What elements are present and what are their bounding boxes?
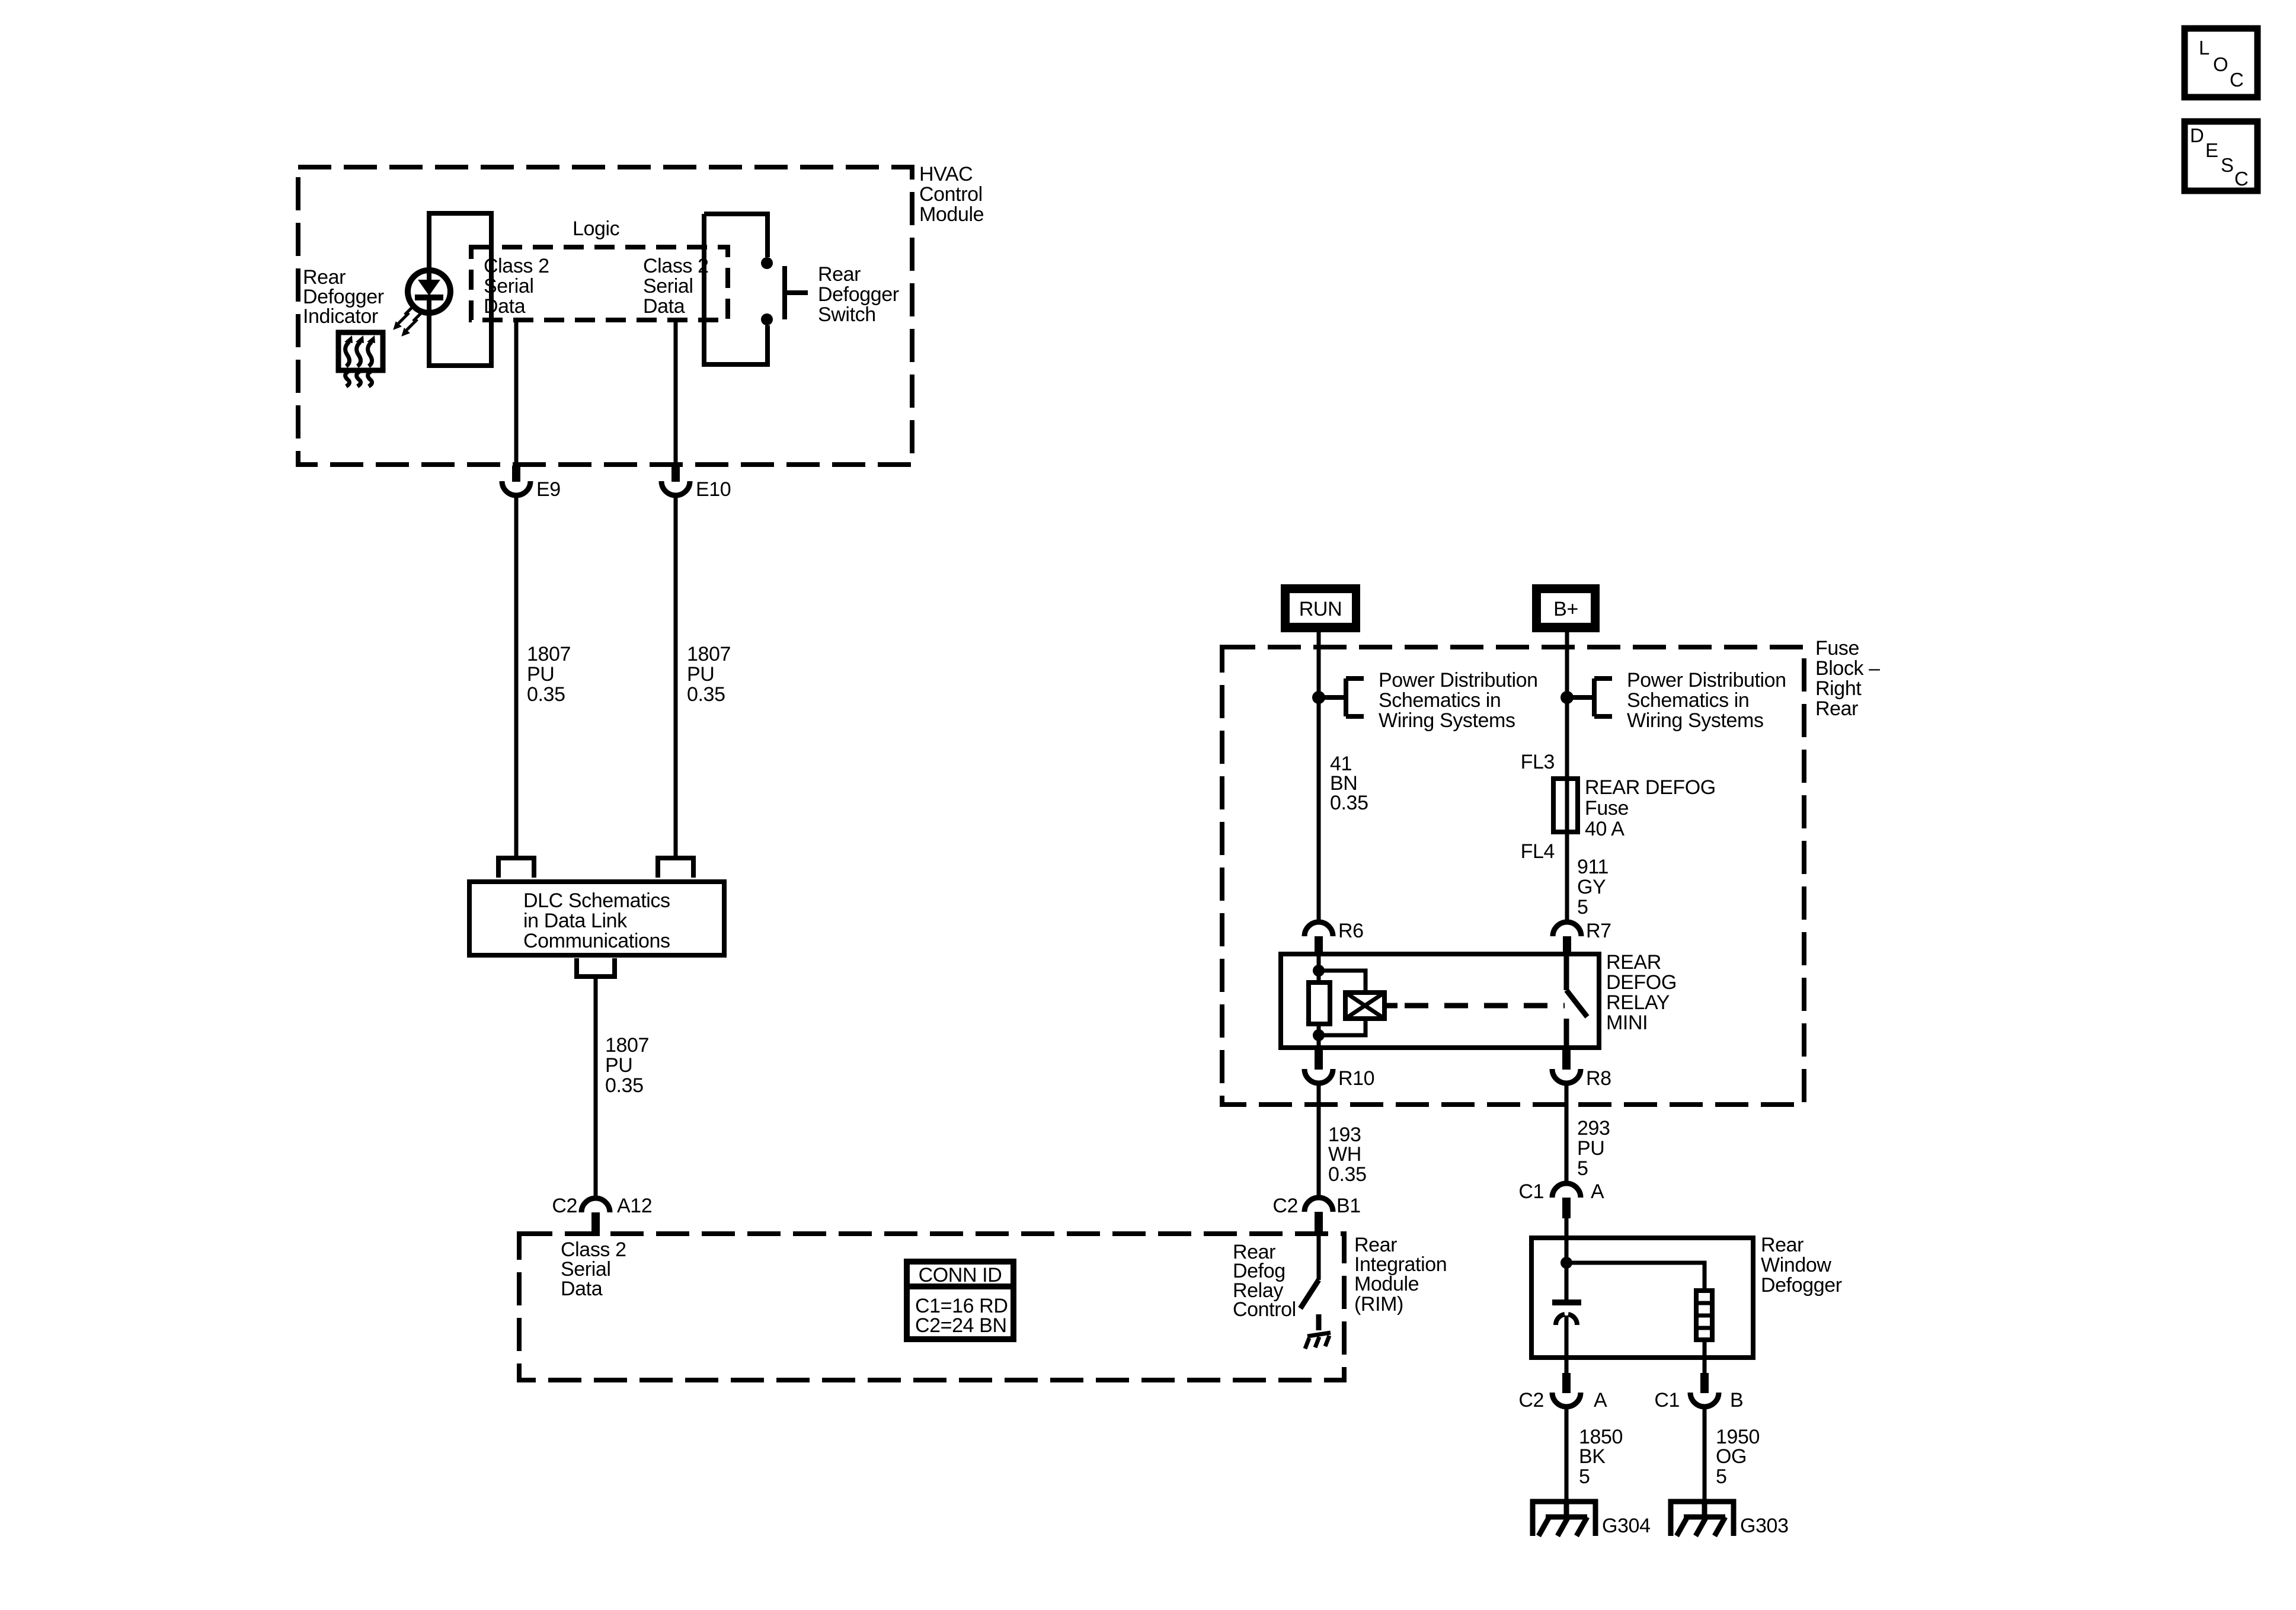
- defogger grid branch wire: [1566, 1263, 1705, 1291]
- wire label 41 BN 0.35: [1330, 753, 1368, 814]
- svg-text:C2=24 BN: C2=24 BN: [915, 1314, 1007, 1337]
- connector C2 A (ground side): [1552, 1373, 1581, 1407]
- svg-text:R7: R7: [1586, 920, 1611, 942]
- svg-text:911: 911: [1577, 856, 1609, 878]
- svg-text:GY: GY: [1577, 876, 1606, 898]
- svg-text:Fuse: Fuse: [1585, 797, 1629, 820]
- wire label 1807 PU 0.35 (right): [687, 643, 731, 706]
- junction upper (relay): [1313, 965, 1325, 977]
- svg-text:5: 5: [1577, 1157, 1588, 1180]
- rear defogger indicator branch rectangle (wire loop): [429, 213, 491, 366]
- relay coil element: [1345, 993, 1384, 1019]
- DLC connector bracket (right): [658, 858, 693, 878]
- svg-text:PU: PU: [527, 663, 554, 686]
- svg-text:Data: Data: [643, 295, 685, 318]
- DLC connector bracket (left): [498, 858, 534, 878]
- wire from logic to E10: [674, 320, 678, 466]
- REAR DEFOG Fuse 40 A label: [1585, 776, 1716, 840]
- junction on B+ wire: [1560, 691, 1574, 704]
- svg-text:REAR DEFOG: REAR DEFOG: [1585, 776, 1716, 799]
- REAR DEFOG RELAY MINI label: [1606, 951, 1677, 1034]
- svg-text:WH: WH: [1328, 1143, 1361, 1166]
- svg-text:1807: 1807: [687, 643, 731, 665]
- Class 2 Serial Data label (left): [484, 255, 549, 318]
- node B+: [1532, 584, 1600, 632]
- relay coil branch wire: [1319, 971, 1366, 1035]
- svg-text:Power Distribution: Power Distribution: [1627, 669, 1786, 692]
- chassis ground (RIM): [1305, 1333, 1331, 1349]
- svg-text:CONN ID: CONN ID: [919, 1264, 1002, 1286]
- svg-text:5: 5: [1579, 1465, 1590, 1488]
- Power Distribution Schematics in Wiring Systems label (B+): [1627, 669, 1786, 732]
- svg-text:OG: OG: [1716, 1445, 1747, 1468]
- svg-text:C: C: [2230, 69, 2244, 91]
- svg-text:L: L: [2199, 37, 2209, 59]
- REAR DEFOG RELAY MINI box: [1281, 954, 1599, 1048]
- Rear Defogger Indicator label: [303, 266, 384, 328]
- connector C1 B: [1690, 1373, 1719, 1407]
- svg-text:B+: B+: [1553, 598, 1578, 620]
- svg-text:E: E: [2205, 139, 2218, 161]
- svg-text:C1: C1: [1654, 1389, 1680, 1411]
- svg-text:DLC Schematics: DLC Schematics: [523, 889, 670, 912]
- svg-text:Block –: Block –: [1815, 657, 1880, 680]
- wire to G303: [1703, 1407, 1707, 1502]
- LOC reference box: [2185, 28, 2257, 97]
- svg-text:Control: Control: [919, 183, 983, 206]
- wire label 1950 OG 5: [1716, 1426, 1760, 1488]
- svg-text:40 A: 40 A: [1585, 818, 1625, 840]
- power distribution reference bracket (B+): [1567, 678, 1612, 716]
- RIM switch blade: [1300, 1280, 1319, 1308]
- svg-text:Class 2: Class 2: [484, 255, 549, 277]
- svg-text:Schematics in: Schematics in: [1627, 689, 1749, 712]
- Class 2 Serial Data label (RIM): [561, 1238, 626, 1300]
- svg-text:Switch: Switch: [818, 303, 876, 326]
- connector E9: [502, 466, 530, 495]
- Rear Defog Relay Control label: [1233, 1241, 1296, 1321]
- svg-text:5: 5: [1577, 896, 1588, 918]
- svg-text:DEFOG: DEFOG: [1606, 971, 1677, 994]
- relay resistor: [1309, 982, 1330, 1024]
- Rear Window Defogger label: [1761, 1234, 1842, 1297]
- svg-text:Window: Window: [1761, 1254, 1831, 1276]
- svg-text:A: A: [1591, 1180, 1604, 1203]
- svg-text:0.35: 0.35: [605, 1074, 644, 1097]
- Rear Window Defogger box: [1531, 1238, 1753, 1358]
- relay switch contact wire: [1564, 1019, 1569, 1048]
- connector R8: [1552, 1048, 1581, 1083]
- svg-text:0.35: 0.35: [687, 683, 725, 706]
- svg-text:FL3: FL3: [1521, 751, 1555, 773]
- svg-text:Serial: Serial: [643, 275, 693, 297]
- svg-text:Wiring Systems: Wiring Systems: [1627, 709, 1764, 732]
- svg-text:PU: PU: [605, 1054, 632, 1077]
- ground G303: [1671, 1502, 1734, 1536]
- svg-text:Defogger: Defogger: [818, 283, 899, 306]
- svg-text:A12: A12: [617, 1195, 652, 1217]
- svg-text:Power Distribution: Power Distribution: [1379, 669, 1538, 692]
- junction (defogger): [1560, 1257, 1572, 1269]
- wire label 1807 PU 0.35 (left): [527, 643, 571, 706]
- svg-text:C2: C2: [1272, 1195, 1298, 1217]
- svg-text:C2: C2: [552, 1195, 577, 1217]
- svg-text:R6: R6: [1338, 920, 1364, 942]
- wire fuse to R7: [1565, 832, 1569, 922]
- defogger grid element: [1696, 1291, 1712, 1340]
- svg-text:0.35: 0.35: [527, 683, 565, 706]
- Power Distribution Schematics in Wiring Systems label (RUN): [1379, 669, 1538, 732]
- svg-text:G303: G303: [1740, 1515, 1789, 1537]
- Fuse Block Right Rear dashed box: [1222, 647, 1804, 1105]
- svg-text:293: 293: [1577, 1117, 1610, 1140]
- connector C2 A12: [581, 1198, 610, 1236]
- svg-text:O: O: [2213, 53, 2228, 75]
- connector C1 A: [1552, 1183, 1581, 1218]
- LED light emission arrows: [394, 306, 421, 336]
- svg-text:Control: Control: [1233, 1298, 1296, 1321]
- svg-text:Communications: Communications: [523, 930, 670, 952]
- svg-text:Rear: Rear: [1815, 697, 1858, 720]
- DLC Schematics box: [469, 882, 724, 955]
- wire into defogger box: [1565, 1218, 1569, 1238]
- svg-text:BK: BK: [1579, 1445, 1606, 1468]
- connector R7: [1553, 922, 1581, 954]
- svg-text:Right: Right: [1815, 677, 1862, 700]
- relay switch blade: [1566, 990, 1587, 1017]
- Fuse Block - Right Rear label: [1815, 637, 1880, 720]
- svg-text:Data: Data: [484, 295, 526, 318]
- svg-text:Wiring Systems: Wiring Systems: [1379, 709, 1515, 732]
- svg-text:Defogger: Defogger: [1761, 1274, 1842, 1297]
- svg-text:C1: C1: [1518, 1180, 1544, 1203]
- svg-text:Class 2: Class 2: [643, 255, 709, 277]
- svg-text:Rear: Rear: [1761, 1234, 1803, 1256]
- connector C2 B1: [1304, 1198, 1333, 1234]
- wire RUN to R6: [1317, 632, 1321, 922]
- wire label 1850 BK 5: [1579, 1426, 1623, 1488]
- svg-text:Fuse: Fuse: [1815, 637, 1859, 660]
- svg-text:1807: 1807: [527, 643, 571, 665]
- switch contact upper: [761, 257, 773, 269]
- svg-text:PU: PU: [1577, 1137, 1604, 1160]
- connector E10: [661, 466, 690, 495]
- svg-text:E10: E10: [696, 478, 731, 501]
- svg-text:C: C: [2234, 168, 2249, 190]
- fuse REAR DEFOG 40A: [1553, 779, 1578, 832]
- defogger left return wire: [1565, 1315, 1569, 1373]
- rear defogger switch actuator: [785, 266, 808, 319]
- svg-text:Indicator: Indicator: [303, 305, 378, 328]
- DLC Schematics label: [523, 889, 670, 952]
- DESC reference box: [2185, 121, 2257, 191]
- svg-text:Serial: Serial: [484, 275, 534, 297]
- defogger sense plate: [1552, 1299, 1581, 1305]
- svg-text:MINI: MINI: [1606, 1012, 1648, 1034]
- wire B+ to fuse: [1565, 632, 1569, 779]
- svg-text:in Data Link: in Data Link: [523, 910, 628, 932]
- wire R8 to C1 A: [1565, 1083, 1569, 1183]
- wire E10 to DLC: [674, 495, 678, 858]
- svg-text:C2: C2: [1518, 1389, 1544, 1411]
- RIM switch lower contact wire: [1316, 1314, 1322, 1330]
- svg-text:G304: G304: [1602, 1515, 1651, 1537]
- defogger feed wire: [1565, 1238, 1569, 1300]
- svg-text:1807: 1807: [605, 1034, 649, 1057]
- wire from logic to E9: [514, 320, 519, 466]
- wire label 293 PU 5: [1577, 1117, 1610, 1180]
- svg-text:0.35: 0.35: [1328, 1163, 1367, 1186]
- rear defogger switch enclosure (wire loop): [704, 214, 768, 364]
- connector R10: [1304, 1048, 1333, 1083]
- switch contact lower: [761, 313, 773, 325]
- defogger grid return wire: [1703, 1340, 1707, 1373]
- wire E9 to DLC: [514, 495, 519, 858]
- defogger sense arc: [1556, 1314, 1577, 1325]
- wire label 911 GY 5: [1577, 856, 1609, 918]
- svg-text:FL4: FL4: [1521, 840, 1555, 863]
- Rear Integration Module (RIM) label: [1354, 1234, 1447, 1315]
- svg-text:Module: Module: [1354, 1273, 1419, 1295]
- logic inner dashed box: [471, 247, 728, 320]
- svg-text:5: 5: [1716, 1465, 1727, 1488]
- svg-text:Rear: Rear: [818, 263, 861, 286]
- LED D1 rear defogger indicator: [408, 270, 450, 313]
- svg-text:RUN: RUN: [1299, 598, 1342, 620]
- svg-text:Module: Module: [919, 203, 984, 226]
- wire DLC to C2 A12: [594, 977, 598, 1199]
- svg-text:A: A: [1594, 1389, 1607, 1411]
- relay coil feed wire: [1317, 954, 1321, 1048]
- svg-text:PU: PU: [687, 663, 714, 686]
- rear defogger indicator heat icon: [338, 332, 383, 386]
- svg-text:0.35: 0.35: [1330, 792, 1368, 814]
- svg-text:D: D: [2190, 124, 2204, 146]
- wire label 193 WH 0.35: [1328, 1124, 1367, 1186]
- svg-text:B: B: [1730, 1389, 1743, 1411]
- junction lower (relay): [1313, 1029, 1325, 1041]
- Class 2 Serial Data label (right): [643, 255, 709, 318]
- wire to G304: [1565, 1407, 1569, 1502]
- svg-text:REAR: REAR: [1606, 951, 1661, 974]
- HVAC Control Module label: [919, 163, 984, 226]
- Rear Defogger Switch label: [818, 263, 899, 326]
- svg-text:RELAY: RELAY: [1606, 991, 1670, 1014]
- svg-text:R10: R10: [1338, 1067, 1374, 1090]
- svg-text:HVAC: HVAC: [919, 163, 973, 185]
- Rear Integration Module dashed box: [519, 1234, 1344, 1380]
- relay actuation dashed link: [1384, 1003, 1398, 1009]
- DLC bottom connector bracket: [577, 958, 615, 977]
- svg-text:R8: R8: [1586, 1067, 1611, 1090]
- relay switch pivot wire: [1564, 955, 1569, 990]
- node RUN: [1281, 584, 1360, 632]
- svg-text:(RIM): (RIM): [1354, 1293, 1403, 1315]
- svg-text:E9: E9: [536, 478, 561, 501]
- wire label 1807 PU 0.35 (lower): [605, 1034, 649, 1097]
- power distribution reference bracket (RUN): [1319, 678, 1364, 716]
- junction on RUN wire: [1312, 691, 1325, 704]
- svg-text:Data: Data: [561, 1278, 603, 1300]
- svg-text:Logic: Logic: [573, 217, 620, 240]
- svg-text:S: S: [2221, 154, 2234, 176]
- ground G304: [1533, 1502, 1595, 1536]
- svg-text:Schematics in: Schematics in: [1379, 689, 1501, 712]
- HVAC Control Module dashed box: [298, 167, 912, 465]
- CONN ID table: [907, 1262, 1013, 1339]
- connector R6: [1304, 922, 1333, 954]
- RIM relay control switch wire: [1317, 1234, 1321, 1280]
- svg-text:B1: B1: [1336, 1195, 1361, 1217]
- wire R10 to C2 B1: [1317, 1083, 1321, 1198]
